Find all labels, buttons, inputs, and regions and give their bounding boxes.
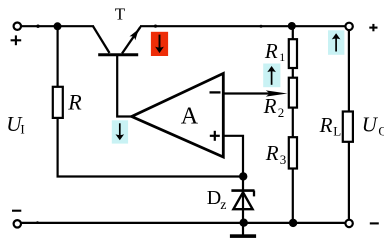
wire joint mark bottom rail — [36, 221, 39, 224]
wire R3 to bottom rail — [292, 169, 294, 223]
output terminal bottom-right — [345, 220, 352, 227]
svg-text:2: 2 — [278, 105, 285, 120]
wire joint mark top rail 1 — [36, 25, 39, 28]
svg-text:R: R — [319, 113, 333, 137]
wire top rail junction down to R1 — [292, 26, 294, 40]
wire op-amp inverting input to R2 wiper — [223, 92, 270, 94]
cyan up arrow stem — [271, 70, 273, 85]
svg-text:z: z — [220, 198, 226, 213]
svg-text:A: A — [181, 104, 199, 130]
wire zener top lead — [242, 177, 244, 223]
red current-direction box at emitter — [151, 32, 168, 56]
wire resistor R bottom to reference rail corner — [58, 119, 244, 177]
svg-text:R: R — [265, 141, 279, 165]
cyan box with down arrow at op-amp output — [112, 120, 128, 143]
junction dot input node — [54, 22, 62, 30]
svg-text:I: I — [20, 122, 24, 137]
svg-text:L: L — [333, 124, 341, 139]
zener diode Dz triangle — [233, 192, 252, 209]
junction dot divider bottom on bottom rail — [289, 219, 297, 227]
wire transistor base lead to op-amp output apex — [117, 55, 131, 117]
svg-text:R: R — [67, 89, 82, 114]
svg-text:3: 3 — [280, 152, 287, 167]
svg-text:R: R — [264, 39, 278, 63]
output minus sign — [370, 222, 379, 224]
ground bar — [230, 234, 256, 238]
input terminal top-left — [14, 23, 21, 30]
zener diode Dz cathode bar — [231, 189, 254, 192]
junction dot top of divider — [288, 22, 296, 30]
op-amp non-inverting input plus sign — [210, 135, 220, 137]
input plus sign — [11, 39, 22, 41]
wire joint mark top rail 3 — [260, 25, 263, 28]
wire R1 to R2 — [292, 68, 294, 78]
op-amp inverting input minus sign — [210, 91, 221, 93]
wire ground stub — [242, 223, 244, 235]
wire bottom rail — [22, 222, 345, 224]
wire joint mark top rail 2 — [154, 25, 157, 28]
transistor T base bar — [98, 53, 138, 56]
resistor R body — [53, 87, 63, 118]
input minus sign — [12, 210, 21, 212]
svg-text:U: U — [362, 112, 379, 136]
resistor R2 body (potentiometer) — [289, 78, 297, 108]
svg-text:1: 1 — [279, 50, 285, 64]
resistor RL body — [343, 112, 353, 142]
cyan box with up arrow between R1 and R2 — [263, 64, 280, 88]
output plus sign — [369, 27, 377, 29]
red box down arrow head — [155, 47, 164, 54]
resistor R1 body — [289, 39, 297, 68]
wiper arrowhead into R2 — [266, 90, 288, 96]
red box down arrow stem — [159, 35, 161, 49]
junction dot zener reference node — [239, 172, 247, 180]
cyan box with up arrow at output terminal — [328, 30, 344, 55]
resistor R3 body — [289, 137, 297, 168]
wire op-amp non-inverting input down to zener node — [223, 136, 243, 177]
svg-text:T: T — [115, 4, 126, 23]
wire left input branch down to resistor R — [56, 26, 58, 87]
zener diode Dz cathode bent tick — [253, 191, 255, 197]
cyan up arrow head at output — [332, 33, 341, 39]
junction dot zener anode on bottom rail — [240, 219, 248, 227]
wire top rail right segment — [140, 25, 345, 27]
wire R2 to R3 — [292, 108, 294, 138]
svg-text:R: R — [263, 94, 277, 118]
transistor T emitter arrowhead — [130, 29, 139, 40]
op-amp A triangle — [132, 73, 224, 157]
wire load branch lower — [348, 143, 350, 220]
svg-text:O: O — [378, 123, 384, 138]
output terminal top-right — [345, 23, 352, 30]
cyan up arrow stem at output — [335, 37, 337, 52]
transistor T collector lead — [93, 26, 110, 53]
svg-text:D: D — [207, 187, 221, 209]
wire load branch upper — [348, 31, 350, 112]
cyan down arrow head — [116, 134, 125, 140]
wire top rail left segment — [21, 25, 94, 27]
input terminal bottom-left — [14, 220, 21, 227]
transistor T emitter lead — [122, 27, 141, 54]
cyan down arrow stem — [119, 123, 121, 136]
cyan up arrow head — [267, 66, 276, 72]
